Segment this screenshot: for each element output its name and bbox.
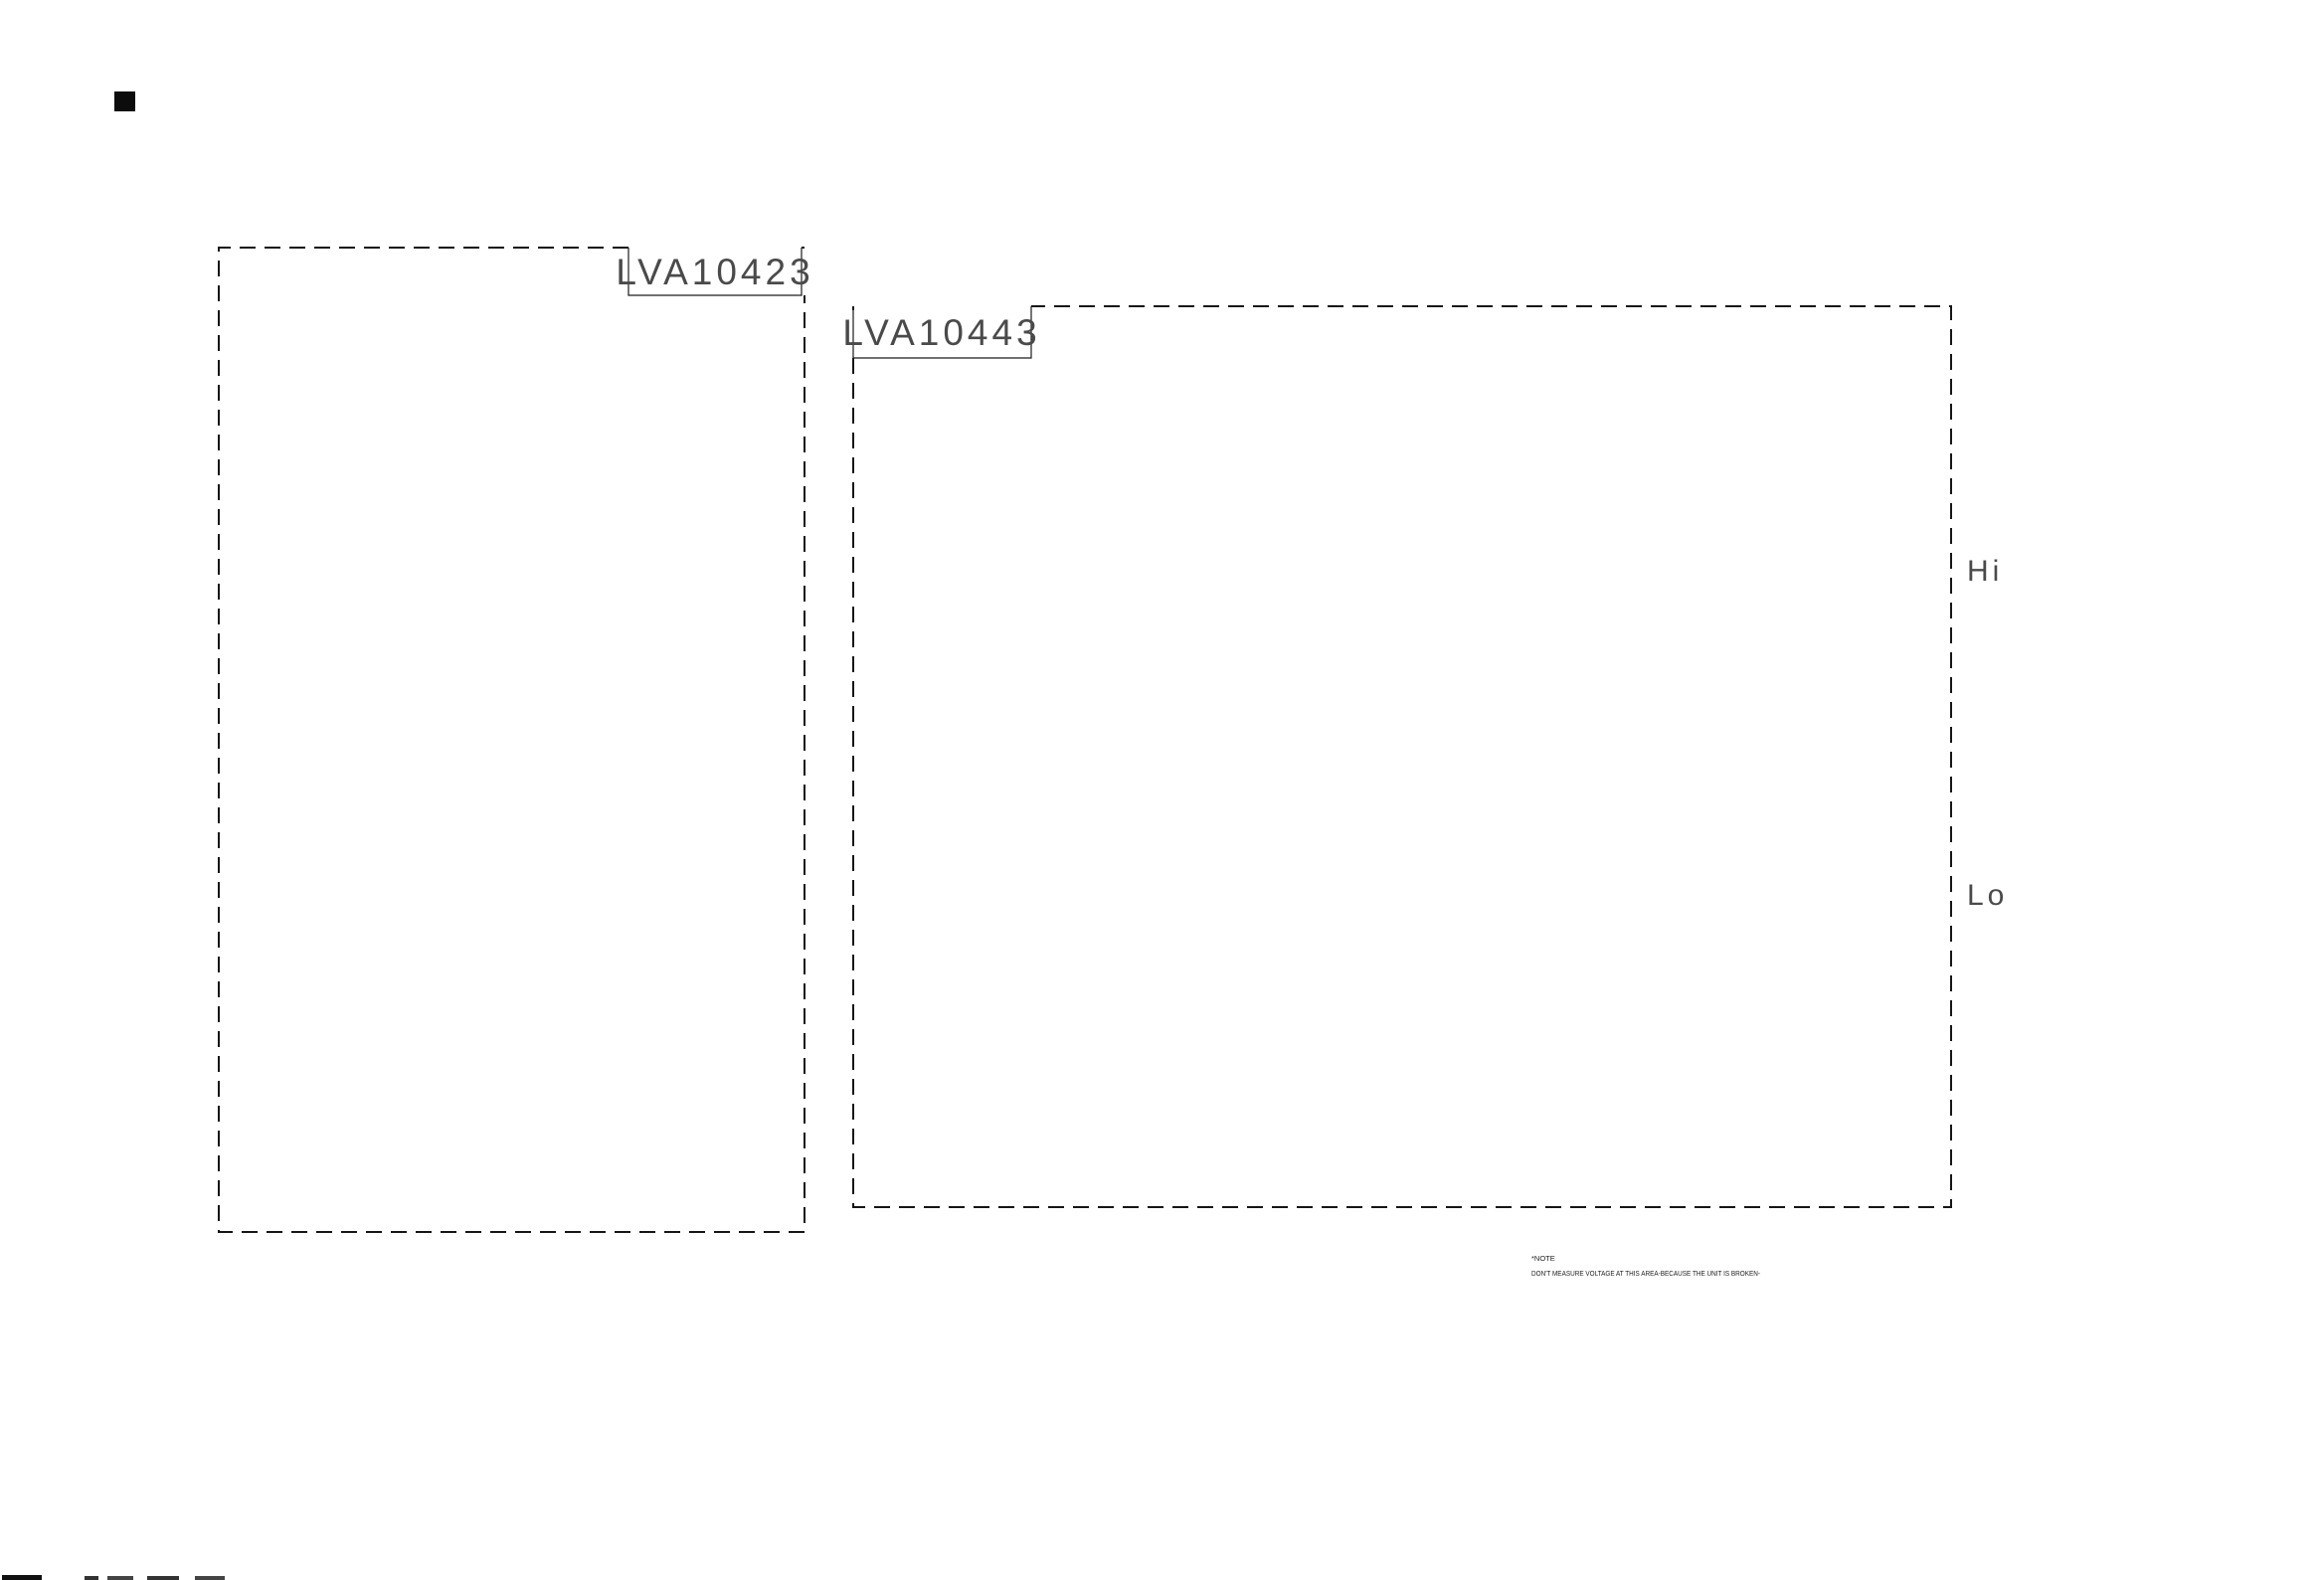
svg-text:Lo: Lo bbox=[1967, 879, 2008, 912]
svg-text:Hi: Hi bbox=[1967, 555, 2003, 588]
page corner mark bbox=[114, 91, 135, 111]
board LVA10423 label box bbox=[628, 248, 802, 295]
svg-text:LVA10423: LVA10423 bbox=[616, 252, 813, 292]
board LVA10443 dashed outline bbox=[853, 306, 1951, 1207]
board LVA10443 label box bbox=[853, 306, 1031, 358]
board LVA10423 dashed outline bbox=[219, 248, 804, 1232]
footer clipped marks bbox=[2, 1575, 42, 1580]
svg-text:*NOTE: *NOTE bbox=[1531, 1254, 1555, 1263]
svg-text:LVA10443: LVA10443 bbox=[842, 312, 1040, 353]
svg-text:DON'T MEASURE VOLTAGE AT THIS: DON'T MEASURE VOLTAGE AT THIS AREA-BECAU… bbox=[1531, 1269, 1760, 1278]
